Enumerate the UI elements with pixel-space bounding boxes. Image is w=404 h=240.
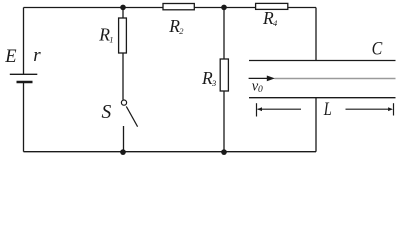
svg-text:r: r <box>33 45 41 66</box>
svg-text:C: C <box>372 37 383 59</box>
svg-text:L: L <box>323 98 332 119</box>
svg-text:E: E <box>4 47 16 67</box>
svg-text:S: S <box>102 102 112 123</box>
